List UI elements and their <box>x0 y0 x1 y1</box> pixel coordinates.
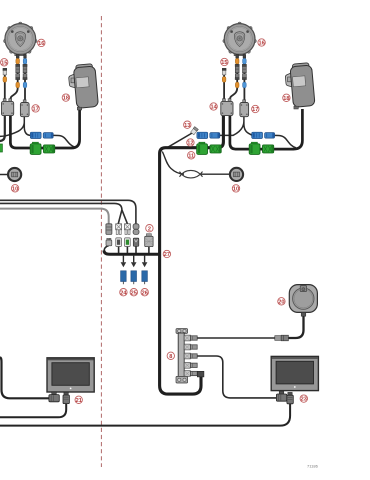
wire: row2 connector 2 drop <box>118 246 120 253</box>
junction box port 4 <box>184 362 197 368</box>
module 14R (CDI unit right) <box>221 99 233 116</box>
junction box port 5 <box>184 371 197 377</box>
junction box 8 top cap <box>176 329 188 334</box>
wire: junction box port 3 to display 23 elbow connector <box>196 356 277 398</box>
label 14R <box>210 103 218 111</box>
svg-text:17: 17 <box>32 107 38 113</box>
svg-text:21: 21 <box>76 398 82 404</box>
label 10R <box>232 185 239 193</box>
row1 connector 4 (gray bullet) <box>133 224 139 235</box>
wire: harness bundle line 1 (dark) to row1 connector 4 <box>0 200 136 224</box>
junction box 8 bottom cap <box>176 376 188 383</box>
terminal leads under right flywheel <box>236 55 246 59</box>
svg-text:20: 20 <box>278 299 284 305</box>
blue band on right blue cable <box>243 58 247 64</box>
flywheel assembly 16 (left engine) <box>4 22 38 56</box>
flywheel assembly 16 (right engine) <box>223 22 257 56</box>
row2 connector 1 <box>106 238 112 246</box>
label 15R <box>221 58 228 66</box>
junction box port 1 <box>184 335 197 341</box>
wire: left item10 pigtail to page edge <box>0 174 9 176</box>
fuse 25 <box>131 271 137 284</box>
display 21 (left) <box>47 358 94 392</box>
terminal leads under left flywheel <box>16 55 26 59</box>
connector 15R on pickup cable <box>222 68 226 75</box>
wire: speedometer 20 cable <box>288 312 303 338</box>
svg-text:16: 16 <box>38 41 44 47</box>
svg-text:16: 16 <box>258 41 264 47</box>
label 17L <box>32 105 39 113</box>
label 27 <box>163 250 170 258</box>
label 18L <box>62 94 69 102</box>
callout labels <box>0 39 307 404</box>
twisted section symbol <box>180 170 203 178</box>
svg-text:10: 10 <box>12 186 18 192</box>
wire: module 17L leads to blue pair L and page edge <box>0 116 31 136</box>
inline connector pair on speedometer lead <box>275 335 289 341</box>
svg-text:71186: 71186 <box>307 464 319 469</box>
display 23 (right) <box>271 356 318 390</box>
orange band 2 on right orange cable <box>235 82 239 88</box>
svg-text:12: 12 <box>187 141 193 147</box>
blue band 2 on left blue cable <box>23 82 27 88</box>
wire: item 10R lanyard lead with twist from main harness <box>162 152 230 175</box>
junction box 8 body <box>178 333 184 379</box>
label 8 <box>167 352 174 360</box>
svg-text:27: 27 <box>164 252 170 258</box>
main harness plug at junction box port 5 <box>197 371 204 377</box>
wire: drop lead to fuse 24 <box>122 256 124 263</box>
wire: right flywheel pickup cable (with connector 15) into module 14R <box>223 73 225 100</box>
wire: right flywheel blue-coded cable into module 17R <box>243 55 245 101</box>
junction box port 3 <box>184 353 197 359</box>
row1 connector 2 (white lattice) <box>116 224 122 235</box>
wire: display 23 link cable running to page edge <box>0 403 290 425</box>
wire: harness bundle line 2 (dark) with Y-split to row1 connectors 2 and 3 <box>0 203 128 224</box>
wire: connector 13 lead to main harness <box>166 133 193 149</box>
green connector stub at page edge <box>0 144 2 152</box>
wire: row2 connector 3 drop <box>126 246 128 253</box>
wire: left flywheel pickup cable (with connector 15) into module 14L <box>4 73 6 100</box>
svg-text:2: 2 <box>148 226 151 232</box>
label 16L <box>38 39 45 47</box>
wire: left flywheel orange-coded cable into module 14L <box>10 55 17 100</box>
orange band on left pickup cable <box>3 77 7 83</box>
wire: blue pair L to engine harness junction <box>54 135 76 147</box>
module 14L (CDI unit left) <box>2 99 14 116</box>
blue band on left blue cable <box>23 58 27 64</box>
label 16R <box>258 39 265 47</box>
display 21 elbow connector <box>49 392 59 402</box>
row2 connector 3 (green key) <box>125 238 131 247</box>
svg-text:15: 15 <box>1 60 7 66</box>
svg-text:26: 26 <box>142 290 148 296</box>
wire: junction box port 1 to speedometer 20 connector <box>196 337 275 339</box>
label 23 <box>300 395 307 403</box>
label 10L <box>11 185 18 193</box>
svg-text:24: 24 <box>120 290 127 296</box>
wire: drop lead to fuse 26 <box>144 256 146 263</box>
label 20 <box>278 298 285 306</box>
svg-text:11: 11 <box>188 153 194 159</box>
label 12 <box>187 139 194 147</box>
orange band on left orange cable <box>16 58 20 64</box>
wire: connector 2 drop <box>148 246 150 253</box>
svg-text:17: 17 <box>252 107 258 113</box>
wire: row2 connector 4 drop <box>135 246 137 253</box>
label 2 <box>146 225 153 233</box>
junction box port 2 <box>184 344 197 350</box>
item 10L round coupler <box>8 168 21 181</box>
dashed boundary line between helm stations <box>100 16 102 467</box>
display 23 elbow connector <box>276 391 286 401</box>
device 18L (ignition coil bracket left) <box>69 64 99 110</box>
svg-text:8: 8 <box>169 354 172 360</box>
connector 13 (small coupler) <box>190 127 198 135</box>
orange band on right pickup cable <box>222 77 226 83</box>
connector 2 (main harness coupler) <box>145 234 153 247</box>
wire: harness bundle gray line to row1 connector 1 <box>0 209 109 224</box>
wire: module 14L left lead exiting page <box>0 115 5 142</box>
row2 connector 4 <box>133 238 139 246</box>
item 10R lanyard coupler <box>230 168 243 181</box>
row1 connector 3 (white lattice) <box>125 224 131 235</box>
label 18R <box>283 94 290 102</box>
bullet connectors on left orange cable <box>16 64 20 79</box>
label 13 <box>184 121 191 129</box>
green pair B <box>249 142 274 154</box>
svg-text:18: 18 <box>63 96 69 102</box>
blue pair A (connector 12) <box>197 132 220 138</box>
wire: display 21 elbow cable entering from page edge <box>0 357 49 398</box>
row2 connector 2 <box>116 238 122 247</box>
wire: module 14L main lead through green pair L up to device 18L <box>10 109 79 148</box>
fuse 24 <box>121 271 127 284</box>
bullet connectors on right blue cable <box>242 64 246 79</box>
label 24 <box>120 289 128 297</box>
blue pair B <box>252 132 275 138</box>
svg-text:10: 10 <box>233 187 239 193</box>
bullet connectors on left blue cable <box>23 64 27 79</box>
green pair A (connector 11) <box>197 142 222 154</box>
green pair L (inline connectors) <box>30 142 55 154</box>
module 17R (rectifier right) <box>240 100 249 117</box>
wire: display 21 link cable exiting page <box>0 403 66 417</box>
blue pair L (inline connectors) <box>30 132 53 138</box>
svg-text:25: 25 <box>131 290 137 296</box>
label 25 <box>130 289 137 297</box>
wire: remote control thick harness to main harness 27 <box>104 251 160 255</box>
orange band 2 on left orange cable <box>16 82 20 88</box>
label 17R <box>252 105 259 113</box>
svg-text:15: 15 <box>221 60 227 66</box>
wire: main harness 27 from module 14R through green pair A down to junction box 8 <box>160 115 224 395</box>
display 21 straight connector <box>63 392 69 403</box>
label 26 <box>141 289 148 297</box>
blue band 2 on right blue cable <box>243 82 247 88</box>
svg-text:13: 13 <box>184 123 190 129</box>
wire: row2 connector 1 lead into remote-control harness <box>104 246 109 252</box>
row1 connector 1 (gray sleeve) <box>106 224 112 235</box>
label 11 <box>188 152 195 160</box>
device 18R (ignition coil bracket right) <box>285 63 315 109</box>
label 15L <box>0 59 7 67</box>
label 21 <box>75 396 82 404</box>
wire: left flywheel blue-coded cable into module 17L <box>24 55 26 101</box>
wire: right flywheel orange-coded cable into module 14R <box>230 55 237 100</box>
module 17L (rectifier left) <box>20 100 29 117</box>
connector 15L on pickup cable <box>3 68 7 75</box>
bullet connectors on right orange cable <box>235 64 239 79</box>
wire: drop lead to fuse 25 <box>133 256 135 263</box>
orange band on right orange cable <box>235 58 239 64</box>
svg-text:23: 23 <box>301 397 307 403</box>
svg-text:18: 18 <box>283 96 289 102</box>
wire: blue pair B to engine harness junction <box>274 135 296 147</box>
display 23 straight connector <box>287 392 293 403</box>
wire: module 14R lead through green pair B up to device 18R <box>230 109 303 149</box>
fuse 26 <box>142 271 148 284</box>
svg-text:14: 14 <box>210 105 217 111</box>
wire: module 17R leads to blue pair A and blue pair B <box>220 116 253 135</box>
speedometer 20 <box>289 285 317 317</box>
